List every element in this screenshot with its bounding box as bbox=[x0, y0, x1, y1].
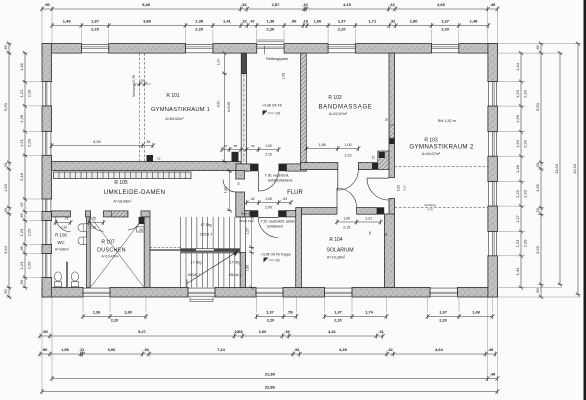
svg-text:1,23: 1,23 bbox=[515, 139, 520, 148]
svg-text:.62: .62 bbox=[19, 201, 24, 207]
dim Gym2 door vertical bbox=[397, 185, 407, 191]
svg-text:.38: .38 bbox=[138, 228, 143, 232]
svg-text:.33: .33 bbox=[535, 207, 540, 213]
svg-text:4,15: 4,15 bbox=[343, 2, 352, 7]
window left 4 bbox=[42, 221, 52, 245]
window top 1 bbox=[81, 44, 108, 54]
window left 3 bbox=[42, 199, 52, 212]
wall W4 vestibule south segment east bbox=[287, 164, 307, 171]
wall W8 Umkleide east bbox=[236, 171, 245, 180]
svg-text:A=54,07m²: A=54,07m² bbox=[422, 152, 441, 156]
level mark +4.08 vestibule bbox=[262, 104, 282, 116]
black jamb block Duschen NE bbox=[139, 217, 145, 224]
dim landing heights bbox=[246, 215, 255, 290]
svg-text:1,74: 1,74 bbox=[365, 310, 373, 315]
wall W12 Duschen east / stair west bbox=[144, 217, 150, 288]
svg-text:.72: .72 bbox=[372, 156, 376, 161]
svg-text:2,15: 2,15 bbox=[343, 226, 350, 230]
dimension chain top inner bbox=[50, 19, 490, 32]
svg-text:T 30, rauchdicht,: T 30, rauchdicht, bbox=[265, 174, 290, 178]
wall W7 Flur south segment west bbox=[236, 211, 250, 217]
svg-text:.49: .49 bbox=[488, 347, 494, 352]
svg-text:2,20: 2,20 bbox=[522, 239, 527, 248]
svg-text:R 106: R 106 bbox=[55, 233, 67, 238]
svg-text:b=3,98: b=3,98 bbox=[227, 102, 231, 112]
svg-text:.64: .64 bbox=[250, 144, 255, 148]
dim Bandmassage door bbox=[305, 118, 389, 161]
svg-text:1,00: 1,00 bbox=[265, 144, 272, 148]
svg-text:.50: .50 bbox=[3, 288, 8, 294]
svg-text:1,99: 1,99 bbox=[224, 187, 228, 193]
svg-text:2,20: 2,20 bbox=[26, 261, 31, 270]
window right 3 bbox=[488, 182, 498, 207]
svg-text:2,10: 2,10 bbox=[90, 225, 97, 229]
svg-text:1,00: 1,00 bbox=[282, 73, 286, 80]
svg-text:2,15: 2,15 bbox=[345, 154, 352, 158]
svg-text:17 Stg: 17 Stg bbox=[230, 261, 241, 265]
svg-text:22,88: 22,88 bbox=[265, 385, 276, 390]
svg-text:.33: .33 bbox=[3, 162, 8, 168]
svg-text:1,93: 1,93 bbox=[3, 183, 8, 192]
svg-text:2,20: 2,20 bbox=[334, 318, 342, 323]
svg-text:.19: .19 bbox=[302, 19, 308, 24]
door post W15 bbox=[377, 207, 384, 214]
wall W5 Bandmassage south segment west bbox=[301, 163, 338, 170]
svg-text:R 102: R 102 bbox=[328, 95, 342, 101]
svg-text:2,20: 2,20 bbox=[26, 228, 31, 237]
svg-text:A=19,28m²: A=19,28m² bbox=[327, 256, 346, 260]
outer wall top pier 1 bbox=[42, 44, 81, 54]
outer wall left pier 2 bbox=[42, 106, 52, 131]
svg-text:.10: .10 bbox=[302, 2, 308, 7]
dim Umkleide interior vertical bbox=[224, 169, 233, 213]
dim Gym1 east vertical bbox=[217, 51, 231, 163]
outer wall right pier 2 bbox=[488, 106, 498, 132]
stairs bbox=[150, 217, 246, 288]
svg-text:1,37: 1,37 bbox=[266, 310, 274, 315]
window bottom 3 bbox=[256, 287, 283, 297]
outer wall right pier 5 bbox=[488, 256, 498, 297]
level mark +3.08 landing bbox=[261, 253, 291, 263]
stair text lower left bbox=[188, 261, 202, 278]
svg-text:1,48: 1,48 bbox=[470, 19, 479, 24]
svg-text:2,20: 2,20 bbox=[439, 318, 447, 323]
svg-text:.35: .35 bbox=[383, 233, 387, 237]
svg-text:1,21: 1,21 bbox=[365, 217, 372, 221]
svg-text:selbstschließend: selbstschließend bbox=[268, 179, 293, 183]
svg-text:.32: .32 bbox=[241, 2, 247, 7]
svg-text:11,64: 11,64 bbox=[554, 163, 559, 173]
outer wall bottom pier 2 bbox=[110, 287, 188, 297]
svg-text:1,66: 1,66 bbox=[246, 265, 250, 272]
outer wall bottom pier 1 bbox=[42, 287, 83, 297]
svg-text:.45: .45 bbox=[19, 245, 24, 251]
wall W11 WC stall divider bbox=[66, 262, 68, 287]
svg-text:.33: .33 bbox=[237, 329, 243, 334]
svg-text:2,15: 2,15 bbox=[265, 153, 272, 157]
svg-text:1,44: 1,44 bbox=[515, 62, 520, 71]
svg-text:.58: .58 bbox=[233, 144, 238, 148]
dim WC door bbox=[54, 217, 73, 230]
outer wall left pier 6 bbox=[42, 278, 52, 298]
svg-text:2,20: 2,20 bbox=[338, 27, 347, 32]
window bottom 5 bbox=[430, 287, 458, 297]
svg-text:5,50: 5,50 bbox=[3, 102, 8, 111]
svg-text:1,29: 1,29 bbox=[515, 114, 520, 123]
svg-text:1,38: 1,38 bbox=[195, 19, 204, 24]
svg-text:.45: .45 bbox=[19, 212, 24, 218]
wall W5 Bandmassage south segment east bbox=[358, 163, 372, 170]
svg-text:.37: .37 bbox=[223, 144, 228, 148]
svg-text:1,23: 1,23 bbox=[19, 261, 24, 270]
svg-text:GYMNASTIKRAUM 1: GYMNASTIKRAUM 1 bbox=[151, 107, 210, 113]
svg-text:OK: OK bbox=[275, 259, 281, 263]
room label R101 bbox=[151, 93, 210, 121]
boxed label 38 bbox=[137, 227, 144, 232]
svg-text:1,00: 1,00 bbox=[345, 143, 352, 147]
curtain width dim bbox=[133, 78, 151, 86]
outer wall top pier 2 bbox=[109, 44, 186, 54]
svg-text:1,37: 1,37 bbox=[334, 310, 342, 315]
wall W8 lower part bbox=[236, 192, 245, 217]
svg-text:4,65: 4,65 bbox=[437, 2, 446, 7]
svg-text:1,95: 1,95 bbox=[535, 183, 540, 192]
dimension chain left inner bbox=[19, 51, 31, 290]
svg-text:.49: .49 bbox=[535, 44, 540, 50]
svg-text:Rettungsplan: Rettungsplan bbox=[266, 57, 288, 61]
svg-text:.32: .32 bbox=[241, 19, 247, 24]
svg-text:.32: .32 bbox=[3, 207, 8, 213]
wall W9 segment 3 with hatch bbox=[104, 211, 129, 217]
window top 3 bbox=[328, 44, 355, 54]
svg-text:.50: .50 bbox=[42, 347, 48, 352]
hatched pier at W5 east bbox=[378, 151, 389, 170]
svg-text:2,00: 2,00 bbox=[259, 329, 268, 334]
svg-text:R 101: R 101 bbox=[166, 93, 180, 99]
svg-text:.54: .54 bbox=[146, 140, 151, 144]
svg-text:DUSCHEN: DUSCHEN bbox=[97, 248, 126, 254]
svg-text:R 105: R 105 bbox=[114, 180, 128, 186]
dimension chain bottom B bbox=[38, 329, 385, 339]
door D3 Flur to stair landing bbox=[258, 218, 278, 238]
svg-text:1,80: 1,80 bbox=[124, 310, 132, 315]
wall W16 Solarium east bbox=[384, 214, 394, 287]
window top 2 bbox=[186, 44, 213, 54]
door post W5 bbox=[372, 162, 378, 170]
dim Duschen door 1 bbox=[87, 217, 106, 230]
svg-text:.32: .32 bbox=[389, 2, 395, 7]
svg-text:.62: .62 bbox=[237, 182, 241, 187]
wall W3 vestibule east hatched bbox=[301, 53, 307, 164]
outer wall bottom pier 4 bbox=[283, 287, 325, 297]
label Vorhang Gym2 bbox=[424, 203, 436, 212]
dimension chain right 3 bbox=[554, 51, 563, 287]
svg-text:+4,08 OK Fb: +4,08 OK Fb bbox=[262, 104, 282, 108]
svg-text:A=69,62m²: A=69,62m² bbox=[165, 117, 184, 121]
svg-text:.75: .75 bbox=[91, 217, 96, 221]
svg-text:.50: .50 bbox=[535, 287, 540, 293]
svg-text:A=22,57m²: A=22,57m² bbox=[329, 112, 348, 116]
dimension chain left outer bbox=[3, 42, 12, 300]
svg-text:schließend: schließend bbox=[267, 225, 283, 229]
Rettungsplan label and leader bbox=[265, 46, 288, 61]
svg-text:A=4,80m²: A=4,80m² bbox=[55, 248, 69, 252]
svg-text:1,37: 1,37 bbox=[439, 310, 447, 315]
svg-text:.49: .49 bbox=[490, 2, 496, 7]
svg-text:BANDMASSAGE: BANDMASSAGE bbox=[318, 105, 372, 111]
outer wall left pier 1 bbox=[42, 44, 52, 82]
svg-text:7,24: 7,24 bbox=[217, 347, 226, 352]
svg-text:1,21: 1,21 bbox=[19, 89, 24, 98]
svg-text:1,23: 1,23 bbox=[515, 239, 520, 248]
outer wall top pier 6 bbox=[459, 44, 498, 54]
door D2 vestibule to Flur bbox=[259, 171, 279, 191]
svg-text:1,27: 1,27 bbox=[515, 214, 520, 223]
svg-text:1,48: 1,48 bbox=[472, 310, 480, 315]
dimension chain right 4 bbox=[572, 42, 581, 297]
svg-text:4,64: 4,64 bbox=[435, 347, 444, 352]
hatched pier Solarium NE bbox=[384, 214, 389, 227]
svg-text:1,37: 1,37 bbox=[338, 19, 347, 24]
svg-text:3,00: 3,00 bbox=[108, 347, 117, 352]
svg-text:1,36: 1,36 bbox=[93, 310, 101, 315]
svg-text:SOLARIUM: SOLARIUM bbox=[326, 248, 353, 254]
black block on hatched pier bbox=[379, 152, 385, 158]
outer wall top pier 3 bbox=[213, 44, 257, 54]
dimension chain right 1 bbox=[515, 51, 527, 290]
dim Solarium door bbox=[335, 217, 388, 237]
svg-text:2,18: 2,18 bbox=[19, 172, 24, 181]
svg-text:.32: .32 bbox=[387, 347, 393, 352]
room label R104 bbox=[326, 237, 353, 260]
curtain dashed line Gymnastikraum 1 a bbox=[139, 53, 141, 161]
door D4 Umkleide to Flur bbox=[223, 179, 236, 192]
svg-text:Rost FN0: Rost FN0 bbox=[241, 212, 254, 216]
svg-text:2,20: 2,20 bbox=[91, 27, 100, 32]
svg-text:OK: OK bbox=[275, 112, 281, 116]
window right 2 bbox=[488, 132, 498, 157]
svg-text:.30: .30 bbox=[140, 78, 145, 82]
dimension chain top outer bbox=[40, 2, 499, 12]
svg-text:.50: .50 bbox=[44, 2, 50, 7]
scan edge right border bbox=[584, 0, 586, 400]
wall W10 WC east bbox=[87, 217, 91, 288]
wall W4 vestibule south segment west bbox=[236, 164, 251, 171]
svg-text:BH 1,42 m: BH 1,42 m bbox=[438, 119, 456, 123]
svg-text:.59: .59 bbox=[287, 310, 293, 315]
dimension chain bottom E bbox=[40, 385, 499, 395]
svg-text:2,20: 2,20 bbox=[26, 89, 31, 98]
window right 1 bbox=[488, 82, 498, 107]
window left 5 bbox=[42, 254, 52, 278]
dimension chain bottom C bbox=[38, 347, 497, 357]
svg-text:5,50: 5,50 bbox=[535, 102, 540, 111]
svg-text:1,37: 1,37 bbox=[441, 19, 450, 24]
curtain dashed line Gymnastikraum 1 b bbox=[144, 53, 146, 161]
svg-text:.58: .58 bbox=[368, 231, 372, 236]
window left 2 bbox=[42, 131, 52, 155]
svg-text:2,00: 2,00 bbox=[265, 206, 272, 210]
svg-text:21,89: 21,89 bbox=[265, 372, 276, 377]
svg-text:.62: .62 bbox=[250, 197, 255, 201]
svg-text:Vorhang: Vorhang bbox=[424, 203, 436, 207]
svg-text:12,64: 12,64 bbox=[572, 163, 577, 174]
svg-text:2,20: 2,20 bbox=[522, 189, 527, 198]
svg-text:.50: .50 bbox=[42, 329, 48, 334]
dimension extension stubs bbox=[29, 30, 525, 313]
svg-text:1,23: 1,23 bbox=[19, 228, 24, 237]
svg-text:1,00: 1,00 bbox=[217, 59, 221, 66]
svg-text:4,70: 4,70 bbox=[427, 208, 433, 212]
svg-text:R 104: R 104 bbox=[329, 237, 343, 243]
window bottom 4 bbox=[325, 287, 353, 297]
svg-text:2,17: 2,17 bbox=[403, 185, 407, 191]
svg-text:1,48: 1,48 bbox=[63, 19, 72, 24]
svg-text:.50: .50 bbox=[19, 279, 24, 285]
outer wall top pier 4 bbox=[284, 44, 328, 54]
window right 4 bbox=[488, 231, 498, 255]
svg-text:1,00: 1,00 bbox=[397, 185, 401, 191]
stair text lower right bbox=[229, 261, 242, 278]
wall W6 Gymnastikraum 2 west upper bbox=[389, 53, 395, 177]
column in wall W1 bbox=[147, 155, 154, 162]
svg-text:.33: .33 bbox=[294, 347, 300, 352]
svg-text:2,20: 2,20 bbox=[26, 138, 31, 147]
svg-text:28/16,5: 28/16,5 bbox=[229, 273, 242, 277]
door post W4 west bbox=[251, 164, 259, 172]
svg-text:A=10,47m²: A=10,47m² bbox=[101, 255, 119, 259]
svg-text:.52: .52 bbox=[156, 157, 160, 161]
corridor dashed line in Gym2 lower bbox=[395, 207, 488, 209]
fire door note upper bbox=[265, 174, 293, 183]
stair text upper bbox=[200, 223, 213, 237]
wall W9 segment 2 bbox=[86, 211, 91, 217]
svg-text:2,20: 2,20 bbox=[522, 139, 527, 148]
svg-text:28/16,7: 28/16,7 bbox=[188, 273, 201, 277]
room label R102 bbox=[318, 95, 372, 116]
wall W15 Solarium north segment east bbox=[357, 208, 377, 215]
wall W15 Solarium north segment west bbox=[302, 208, 338, 215]
svg-text:.31: .31 bbox=[378, 329, 384, 334]
dimension chain bottom D bbox=[50, 372, 499, 382]
svg-text:1,28: 1,28 bbox=[19, 114, 24, 123]
corridor dashed line in Gym2 upper bbox=[395, 166, 488, 168]
room label R103 bbox=[409, 119, 474, 156]
svg-text:.33: .33 bbox=[284, 329, 290, 334]
svg-text:9,27: 9,27 bbox=[138, 329, 147, 334]
svg-text:UMKLEIDE-DAMEN: UMKLEIDE-DAMEN bbox=[104, 189, 166, 196]
outer wall left pier 4 bbox=[42, 212, 52, 221]
outer wall bottom pier 5 bbox=[352, 287, 430, 297]
svg-text:.96: .96 bbox=[291, 19, 297, 24]
dim Gym1 interior bbox=[50, 140, 161, 161]
outer wall bottom pier 3 bbox=[215, 287, 256, 297]
svg-text:2,20: 2,20 bbox=[195, 27, 204, 32]
svg-text:3,50: 3,50 bbox=[217, 101, 221, 108]
wall W6 Gymnastikraum 2 west lower bbox=[389, 199, 395, 217]
black patch on W6 bbox=[389, 139, 394, 145]
room label R107 bbox=[97, 240, 126, 259]
door post W7 west bbox=[250, 210, 258, 217]
svg-text:1,28: 1,28 bbox=[515, 164, 520, 173]
svg-text:4,41: 4,41 bbox=[328, 329, 337, 334]
fire door note lower bbox=[260, 220, 295, 229]
wall W2 vestibule west dark stub bbox=[241, 53, 246, 74]
svg-text:WC: WC bbox=[57, 240, 64, 245]
dimension bottom window chain A4 bbox=[426, 310, 495, 323]
WC toilet 1 bbox=[54, 272, 61, 287]
svg-text:FLUR: FLUR bbox=[287, 190, 303, 196]
svg-text:3,86: 3,86 bbox=[143, 19, 152, 24]
wash basin 1 bbox=[78, 224, 87, 232]
lockers Umkleide-Damen bbox=[54, 172, 192, 179]
window top 4 bbox=[432, 44, 459, 54]
shower room diagonals bbox=[91, 218, 144, 287]
svg-text:1,00: 1,00 bbox=[343, 217, 350, 221]
wall W2 vestibule west partition bbox=[241, 74, 246, 164]
svg-text:1,80: 1,80 bbox=[410, 19, 419, 24]
svg-text:.35: .35 bbox=[384, 118, 389, 122]
wash basin 2 bbox=[78, 237, 87, 245]
svg-text:GYMNASTIKRAUM 2: GYMNASTIKRAUM 2 bbox=[409, 144, 474, 151]
svg-text:1,56: 1,56 bbox=[61, 347, 70, 352]
door post W7 east bbox=[278, 210, 286, 217]
svg-text:.11: .11 bbox=[79, 347, 85, 352]
dim Flur door bbox=[245, 197, 294, 210]
svg-text:.33: .33 bbox=[535, 162, 540, 168]
svg-text:2,87: 2,87 bbox=[272, 2, 281, 7]
window left 1 bbox=[42, 82, 52, 106]
svg-text:1,23: 1,23 bbox=[515, 189, 520, 198]
window bottom 1 bbox=[83, 287, 110, 297]
svg-text:2,20: 2,20 bbox=[441, 27, 450, 32]
svg-text:.49: .49 bbox=[490, 372, 496, 377]
dimension bottom window chain A3 bbox=[323, 310, 389, 323]
svg-text:.75: .75 bbox=[64, 217, 69, 221]
svg-text:1,37: 1,37 bbox=[91, 19, 100, 24]
door D7 Duschen east bbox=[128, 217, 141, 230]
outer wall top pier 5 bbox=[355, 44, 431, 54]
wall W9 Umkleide south segment 1 bbox=[52, 211, 71, 217]
outer wall right pier 1 bbox=[488, 44, 498, 82]
hatch patch on W6 bbox=[389, 125, 394, 138]
svg-text:28/16,7: 28/16,7 bbox=[200, 233, 213, 237]
svg-text:1,44: 1,44 bbox=[515, 267, 520, 276]
column at W1 east end bbox=[232, 152, 239, 162]
door D8 Bandmassage bbox=[338, 170, 359, 191]
outer wall bottom pier 6 bbox=[458, 287, 498, 297]
svg-text:2,20: 2,20 bbox=[267, 318, 275, 323]
svg-text:4,39: 4,39 bbox=[339, 347, 348, 352]
svg-text:9,48: 9,48 bbox=[142, 2, 151, 7]
door post W4 east bbox=[279, 164, 287, 172]
door D9 Gymnastikraum 2 bbox=[367, 178, 389, 200]
svg-text:2,20: 2,20 bbox=[267, 27, 276, 32]
svg-text:.47: .47 bbox=[249, 19, 255, 24]
svg-text:.33: .33 bbox=[143, 347, 149, 352]
svg-text:1,38: 1,38 bbox=[267, 19, 276, 24]
svg-text:1,23: 1,23 bbox=[515, 89, 520, 98]
door D5 WC bbox=[56, 217, 71, 232]
wall W7 Flur south segment east bbox=[286, 211, 301, 217]
dimension chain right 2 bbox=[535, 42, 544, 300]
outer wall right pier 3 bbox=[488, 156, 498, 181]
svg-text:T 30, rauchdicht, selbst-: T 30, rauchdicht, selbst- bbox=[260, 220, 295, 224]
outer wall right pier 4 bbox=[488, 206, 498, 231]
svg-text:17 Stg: 17 Stg bbox=[191, 261, 202, 265]
door D6 Duschen west bbox=[89, 217, 103, 231]
svg-text:2,20: 2,20 bbox=[111, 318, 119, 323]
